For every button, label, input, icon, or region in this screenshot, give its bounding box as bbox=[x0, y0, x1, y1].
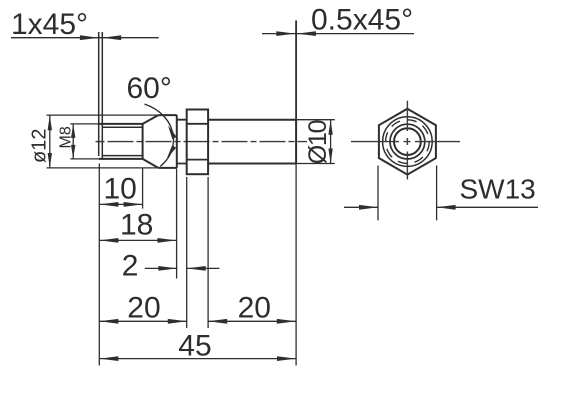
svg-text:20: 20 bbox=[127, 292, 160, 325]
collar o12 section bbox=[158, 115, 177, 168]
end view hidden o10 circle bbox=[386, 120, 430, 164]
arrow 1x45 left bbox=[80, 35, 99, 40]
arrows 2 bbox=[158, 266, 177, 271]
svg-text:SW13: SW13 bbox=[460, 174, 536, 205]
shaft o10 bbox=[208, 120, 296, 164]
chamfer 1x45 edge lines (also extension lines up to dim) bbox=[99, 32, 103, 159]
dim 0.5x45 bbox=[262, 20, 414, 119]
thread M8 root lines bbox=[102, 127, 142, 155]
dim 60 arc bbox=[145, 104, 174, 166]
svg-text:45: 45 bbox=[178, 330, 211, 363]
svg-text:M8: M8 bbox=[58, 126, 75, 148]
cone 60 taper bbox=[143, 115, 159, 168]
end view thread root circle bbox=[394, 128, 421, 155]
thread M8 crest lines bbox=[99, 124, 143, 159]
arrows 45 bbox=[99, 356, 118, 361]
dim 10 bbox=[99, 169, 142, 209]
dim 20 right bbox=[208, 177, 296, 328]
end view center lines bbox=[351, 101, 460, 180]
dim 2 bbox=[145, 267, 220, 269]
arrows M8 bbox=[71, 124, 75, 138]
arrows O10 bbox=[328, 120, 332, 135]
arrows 60 arc bbox=[168, 125, 177, 139]
arrows o12 bbox=[48, 115, 52, 130]
arrows SW13 bbox=[359, 205, 378, 210]
svg-text:20: 20 bbox=[238, 292, 271, 325]
dim O10 right bbox=[296, 120, 335, 164]
groove neck bbox=[177, 120, 187, 164]
svg-text:18: 18 bbox=[120, 209, 153, 242]
arrows 20 right bbox=[208, 319, 227, 324]
dim 1x45 bbox=[11, 37, 159, 39]
dim SW13 bbox=[344, 166, 538, 221]
end view hexagon SW13 bbox=[379, 109, 436, 175]
arrows 20 left bbox=[99, 319, 118, 324]
hex collar side view bbox=[187, 110, 208, 175]
arrow 0.5x45 left bbox=[276, 31, 295, 36]
arrows 18 bbox=[99, 238, 118, 243]
wire: main center line bbox=[96, 141, 308, 143]
dim M8 extension + line bbox=[70, 124, 99, 159]
arrow 0.5x45 right bbox=[297, 31, 316, 36]
end view thread crest circle bbox=[390, 124, 425, 159]
arrow 1x45 right bbox=[102, 35, 121, 40]
dim 18 bbox=[99, 169, 176, 279]
arrows 10 bbox=[99, 202, 118, 207]
svg-text:Ø10: Ø10 bbox=[304, 120, 332, 164]
svg-text:1x45°: 1x45° bbox=[11, 8, 88, 41]
svg-text:10: 10 bbox=[104, 172, 137, 205]
svg-text:60°: 60° bbox=[127, 72, 172, 105]
svg-text:2: 2 bbox=[122, 250, 139, 283]
svg-text:0.5x45°: 0.5x45° bbox=[311, 4, 413, 37]
dim 45 bbox=[99, 164, 296, 366]
end view chamfer circle bbox=[383, 117, 433, 167]
arrowheads bbox=[48, 31, 456, 361]
dim o12 extension lines bbox=[47, 115, 159, 168]
svg-text:ø12: ø12 bbox=[29, 129, 51, 163]
dim 20 left bbox=[99, 177, 187, 328]
hex side inner edges bbox=[187, 124, 208, 160]
